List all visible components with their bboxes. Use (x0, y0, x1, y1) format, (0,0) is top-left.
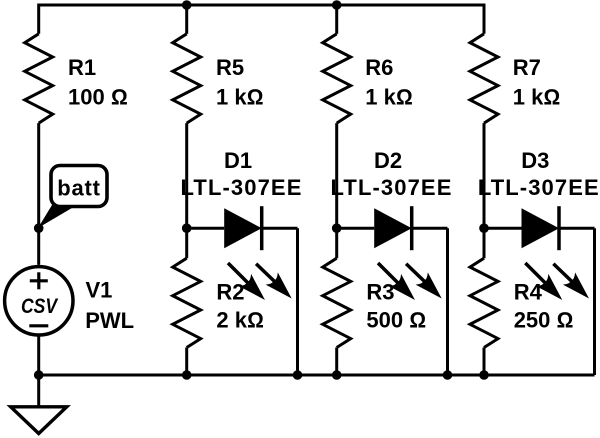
node bottom b2 (182, 370, 192, 380)
node D2 anode junction (332, 223, 342, 233)
svg-text:D1: D1 (224, 148, 252, 173)
wire top rail (39, 5, 484, 34)
resistor R2 (173, 258, 201, 347)
node bottom d2 (443, 370, 453, 380)
wire branch2 top (185, 5, 188, 34)
svg-text:2 kΩ: 2 kΩ (216, 308, 263, 333)
resistor R5 (173, 34, 201, 123)
svg-text:PWL: PWL (85, 308, 134, 333)
node top junction branch2 (182, 0, 192, 10)
wire D2 cathode down (446, 228, 449, 375)
wire bottom rail (39, 374, 595, 377)
svg-text:D3: D3 (521, 148, 549, 173)
node bottom b4 (479, 370, 489, 380)
svg-text:R2: R2 (216, 280, 244, 305)
voltage source V1 (5, 267, 73, 335)
wire branch3 mid (335, 123, 338, 258)
svg-text:R5: R5 (216, 55, 244, 80)
svg-text:V1: V1 (86, 277, 113, 302)
node top junction branch3 (332, 0, 342, 10)
node batt junction (34, 223, 44, 233)
svg-text:1 kΩ: 1 kΩ (365, 85, 412, 110)
svg-text:R3: R3 (366, 280, 394, 305)
svg-text:R6: R6 (365, 55, 393, 80)
svg-text:batt: batt (57, 176, 101, 201)
svg-text:CSV: CSV (21, 294, 58, 318)
svg-text:R1: R1 (68, 55, 96, 80)
wire branch1 mid (37, 123, 40, 265)
wire branch4 bottom (483, 348, 486, 376)
LED arrows D1 (228, 263, 292, 300)
node bottom b1 (34, 370, 44, 380)
svg-text:R7: R7 (513, 55, 541, 80)
resistor R1 (25, 34, 53, 123)
diode D1 (187, 206, 298, 250)
diode D3 (484, 206, 595, 250)
batt callout (38, 166, 107, 229)
resistor R4 (470, 258, 498, 347)
svg-text:250 Ω: 250 Ω (514, 308, 574, 333)
svg-text:LTL-307EE: LTL-307EE (478, 175, 600, 200)
wire branch4 mid (483, 123, 486, 258)
resistor R7 (470, 34, 498, 123)
svg-text:R4: R4 (514, 280, 543, 305)
resistor R3 (323, 258, 351, 347)
node D1 anode junction (182, 223, 192, 233)
svg-text:1 kΩ: 1 kΩ (513, 85, 560, 110)
wire D1 cathode down (296, 228, 299, 375)
wire branch2 mid (185, 123, 188, 258)
wire branch3 top (335, 5, 338, 34)
svg-text:500 Ω: 500 Ω (366, 308, 426, 333)
node bottom b3 (332, 370, 342, 380)
wire V1 bottom (37, 335, 40, 375)
node D3 anode junction (479, 223, 489, 233)
wire branch2 bottom (185, 348, 188, 376)
LED arrows D2 (378, 263, 442, 300)
diode D2 (337, 206, 448, 250)
svg-text:LTL-307EE: LTL-307EE (331, 175, 453, 200)
wire D3 cathode down (593, 228, 596, 375)
svg-text:1 kΩ: 1 kΩ (216, 85, 263, 110)
node bottom d1 (293, 370, 303, 380)
wire branch3 bottom (335, 348, 338, 376)
svg-text:LTL-307EE: LTL-307EE (181, 175, 303, 200)
svg-text:D2: D2 (374, 148, 402, 173)
svg-text:100 Ω: 100 Ω (68, 85, 128, 110)
resistor R6 (323, 34, 351, 123)
LED arrows D3 (525, 263, 589, 300)
ground (11, 375, 67, 434)
